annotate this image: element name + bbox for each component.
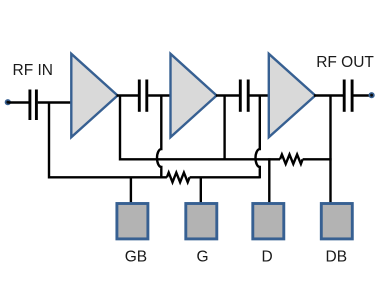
wire: upper bus from R2 to DB riser	[303, 158, 332, 160]
svg-text:DB: DB	[326, 249, 348, 266]
amplifier U3 (gain stage 3)	[269, 54, 316, 137]
wire: C2 to amplifier U2 input	[148, 94, 171, 96]
wire: U1 output to capacitor C2	[117, 94, 139, 96]
svg-text:RF IN: RF IN	[13, 62, 53, 79]
terminal box G (gate pad)	[186, 204, 217, 239]
node: RF IN input terminal dot	[5, 99, 11, 105]
wire: C4 to RF OUT dot	[353, 94, 371, 96]
wire: lower bus from R1 to right corner node	[190, 176, 260, 178]
wire: lower bus down to terminal G	[200, 177, 202, 205]
capacitor C1 (input DC block)	[30, 90, 37, 121]
wire: U3 output node down to terminal DB (junction with upper bus)	[329, 96, 331, 205]
wire: lower bus down to terminal GB	[130, 177, 132, 205]
wire: C3 to amplifier U3 input	[250, 94, 270, 96]
amplifier U2 (gain stage 2)	[171, 54, 217, 137]
wire: U3 input node riser with hop over upper bus, to lower bus right corner	[255, 96, 259, 179]
wire: U3 output to capacitor C4	[314, 94, 343, 96]
capacitor C4 (output DC block)	[344, 80, 352, 112]
wire: C1 to amplifier U1 input	[38, 101, 72, 103]
svg-text:G: G	[196, 249, 208, 266]
wire: input node down and lower bias bus to R1 (junction at x=49)	[49, 103, 167, 178]
wire: U2 output node down to upper bus (junction)	[223, 96, 225, 161]
wire: U2 output to capacitor C3	[216, 94, 239, 96]
capacitor C2 (interstage DC block)	[139, 80, 147, 112]
svg-text:GB: GB	[125, 249, 147, 266]
terminal box DB (drain bias pad)	[321, 204, 352, 239]
wire: upper drain bus from U1 output node down and right to R2	[120, 96, 280, 160]
node: RF OUT output terminal dot	[369, 92, 375, 98]
terminal box GB (gate bias pad)	[117, 204, 148, 239]
svg-text:RF OUT: RF OUT	[316, 54, 374, 71]
wire: upper bus down to terminal D	[268, 158, 270, 204]
amplifier U1 (gain stage 1)	[71, 54, 117, 137]
resistor R2 (in upper drain bus)	[280, 155, 303, 164]
wire: U2 input node riser with hop over upper bus, down to lower bus	[157, 96, 161, 178]
capacitor C3 (interstage DC block)	[240, 80, 248, 112]
svg-text:D: D	[261, 249, 272, 266]
terminal box D (drain pad)	[253, 204, 284, 239]
wire: input dot to capacitor C1	[9, 101, 29, 103]
resistor R1 (in lower gate-bias bus)	[167, 173, 190, 183]
